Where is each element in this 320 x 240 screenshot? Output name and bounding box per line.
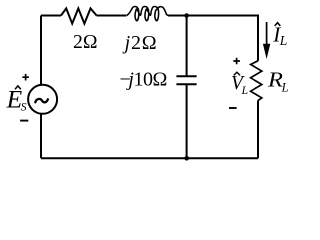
- junction node bottom: [184, 156, 189, 161]
- capacitor -j10ohm bottom plate: [176, 83, 196, 85]
- svg-text:−j10Ω: −j10Ω: [120, 69, 167, 91]
- inductor j2ohm coil: [127, 6, 169, 20]
- resistor RL vertical zigzag: [251, 61, 262, 101]
- svg-text:L: L: [241, 85, 248, 97]
- minus load: [229, 107, 237, 109]
- wire right vertical lower: [257, 101, 259, 159]
- plus load: [233, 58, 240, 65]
- wire inductor to top junction and top-right corner: [168, 16, 258, 61]
- current arrow IL head: [263, 44, 270, 59]
- svg-text:S: S: [21, 102, 27, 114]
- wire middle branch upper: [186, 16, 188, 77]
- wire bottom horizontal: [41, 157, 258, 159]
- junction node top: [184, 13, 189, 18]
- wire left vertical upper: [40, 16, 42, 85]
- resistor 2ohm zigzag: [61, 8, 97, 23]
- wire middle branch lower: [186, 84, 188, 158]
- sine tilde inside source: [35, 99, 48, 102]
- wire top-left horizontal: [41, 15, 61, 17]
- plus source: [22, 74, 29, 81]
- svg-text:2Ω: 2Ω: [73, 31, 98, 53]
- source circle ES: [28, 85, 57, 114]
- svg-text:j2Ω: j2Ω: [122, 32, 158, 54]
- capacitor -j10ohm top plate: [176, 75, 196, 77]
- wire resistor to inductor: [97, 15, 127, 17]
- svg-text:L: L: [281, 81, 289, 95]
- svg-text:L: L: [279, 33, 288, 48]
- minus source: [20, 120, 28, 122]
- wire left vertical lower: [40, 114, 42, 158]
- current arrow IL shaft: [266, 22, 268, 46]
